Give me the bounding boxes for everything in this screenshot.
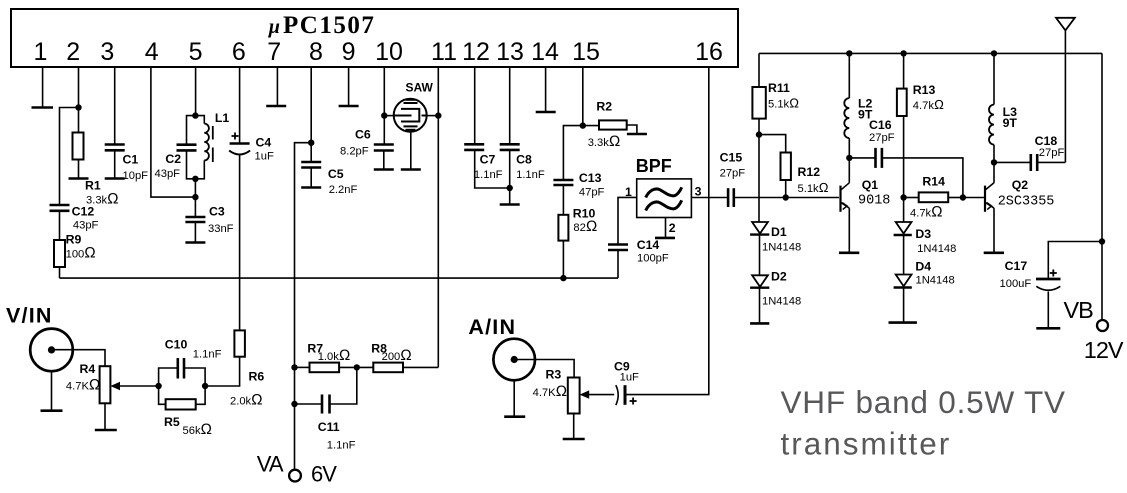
ground C5 — [301, 186, 321, 189]
diode D4 — [896, 275, 912, 287]
wire R5 branch right — [196, 386, 205, 404]
wire R12 to signal node — [785, 180, 787, 198]
svg-text:VA: VA — [257, 452, 284, 477]
wire R1 to ground — [78, 159, 80, 179]
capacitor C9 electrolytic — [616, 385, 618, 405]
svg-text:8: 8 — [309, 38, 323, 66]
potentiometer R3 — [568, 378, 580, 414]
ground Q2 emitter — [984, 252, 1004, 255]
svg-text:D1: D1 — [771, 225, 787, 239]
ground pin9 — [339, 105, 359, 108]
capacitor C4 plus sign — [232, 133, 239, 140]
svg-text:8.2pF: 8.2pF — [340, 146, 369, 158]
wire R9 to bus — [59, 267, 61, 278]
wire R2 to ground — [627, 125, 637, 134]
svg-text:C7: C7 — [480, 152, 496, 166]
capacitor C2 — [177, 143, 197, 146]
wire D3 to D4 — [903, 235, 905, 275]
svg-text:33nF: 33nF — [208, 223, 234, 235]
wire jack to R3 — [517, 360, 574, 378]
node tank bottom — [192, 176, 198, 182]
svg-text:10: 10 — [375, 38, 403, 66]
svg-text:C4: C4 — [256, 136, 272, 150]
ground pin14 — [536, 111, 556, 114]
ground D4 — [889, 321, 917, 324]
ground R1 — [69, 177, 89, 180]
wire VB line down — [1101, 53, 1103, 320]
svg-text:27pF: 27pF — [1039, 147, 1065, 159]
ground C1 — [105, 177, 125, 180]
resistor R8 — [373, 363, 403, 373]
wire pin5 stub — [195, 67, 197, 116]
svg-text:PC1507: PC1507 — [283, 12, 375, 39]
svg-text:R1: R1 — [85, 179, 101, 193]
svg-text:1uF: 1uF — [620, 372, 639, 384]
svg-text:100uF: 100uF — [1000, 278, 1032, 290]
svg-text:C11: C11 — [318, 420, 340, 434]
ground BPF pin2 — [655, 237, 675, 240]
ground R3 — [563, 438, 585, 441]
capacitor C17 electrolytic — [1036, 278, 1061, 281]
svg-text:2SC3355: 2SC3355 — [998, 195, 1055, 210]
wire junction to C3 — [194, 197, 196, 217]
wire C4 to R6 — [239, 155, 241, 331]
wire D1 chain — [758, 135, 760, 222]
ground C17 — [1036, 327, 1060, 330]
ground C6 — [374, 168, 394, 171]
svg-text:3: 3 — [100, 38, 114, 66]
node R12 signal junction — [783, 194, 789, 200]
capacitor C15 — [727, 188, 730, 207]
capacitor C18 — [1030, 154, 1033, 171]
svg-text:BPF: BPF — [636, 156, 672, 176]
ground Q1 emitter — [839, 252, 859, 255]
wire C6 to ground — [383, 151, 385, 170]
resistor R14 — [904, 197, 919, 199]
svg-text:6: 6 — [232, 38, 246, 66]
wire C1 to ground — [114, 150, 116, 178]
wire pin11 line to R8 — [403, 366, 438, 368]
svg-text:C6: C6 — [355, 128, 371, 142]
capacitor C11 — [321, 395, 324, 414]
svg-text:VHF band 0.5W TV: VHF band 0.5W TV — [781, 384, 1066, 420]
connector A/IN jack — [493, 339, 535, 381]
svg-text:2: 2 — [66, 38, 80, 66]
node R13 rail — [900, 50, 906, 56]
node pin4 C3 junction — [192, 194, 198, 200]
wire jack body to ground — [51, 371, 53, 411]
svg-text:VB: VB — [1064, 297, 1094, 323]
wire bottom bus — [60, 277, 619, 279]
inductor L3 — [993, 53, 995, 104]
node Q1 collector junction — [846, 155, 852, 161]
svg-text:C2: C2 — [165, 152, 181, 166]
SAW internal glyph — [394, 100, 427, 130]
svg-text:100pF: 100pF — [637, 253, 669, 265]
svg-text:C8: C8 — [516, 152, 532, 166]
ground pin7 — [266, 105, 286, 108]
svg-text:Q1: Q1 — [862, 178, 879, 192]
svg-text:L1: L1 — [215, 111, 230, 125]
svg-text:7: 7 — [267, 38, 281, 66]
capacitor C14 — [608, 249, 628, 252]
svg-text:1: 1 — [34, 38, 48, 66]
wire R6 bottom to wiper node — [205, 357, 240, 386]
wire pin9 stub — [348, 67, 350, 106]
svg-text:2.2nF: 2.2nF — [329, 184, 358, 196]
svg-text:R14: R14 — [922, 175, 945, 189]
svg-text:C10: C10 — [165, 338, 188, 352]
wire pin15 node to C13 — [563, 126, 582, 180]
resistor R13 — [903, 53, 905, 88]
capacitor C12 — [50, 204, 70, 207]
svg-text:µ: µ — [268, 16, 281, 38]
svg-text:R3: R3 — [546, 368, 562, 382]
svg-text:C13: C13 — [579, 171, 602, 185]
svg-text:1.1nF: 1.1nF — [327, 440, 356, 452]
capacitor C6 — [374, 143, 394, 146]
svg-text:5.1kΩ: 5.1kΩ — [768, 96, 799, 111]
wire C10 branch left — [159, 368, 178, 386]
wire R4 to ground — [104, 403, 106, 430]
svg-text:9018: 9018 — [858, 194, 890, 209]
svg-text:10pF: 10pF — [123, 170, 149, 182]
wire pin16 stub down to C9 — [625, 67, 709, 395]
resistor R12 — [781, 153, 791, 181]
terminal VA — [289, 470, 301, 482]
svg-text:4: 4 — [145, 38, 159, 66]
wire D4 to ground — [903, 288, 905, 323]
wire R7 bus left — [295, 366, 310, 368]
resistor R1 — [73, 133, 84, 160]
svg-text:R6: R6 — [249, 370, 265, 384]
wire tank left branch — [187, 116, 196, 145]
capacitor C16 — [874, 148, 877, 168]
L1 core bars — [212, 126, 214, 140]
node C10 R5 right junction — [202, 383, 208, 389]
svg-text:12: 12 — [462, 38, 490, 66]
svg-text:transmitter: transmitter — [781, 426, 952, 462]
wire R11 to node — [758, 119, 760, 135]
wire pin10 node to SAW — [384, 115, 393, 117]
diode D3 — [896, 222, 912, 234]
wire pin15 stub — [582, 67, 584, 126]
ground D2 — [750, 322, 769, 325]
inductor L1 — [204, 124, 209, 161]
svg-text:D2: D2 — [771, 270, 787, 284]
node wiper C10 junction — [155, 383, 161, 389]
node C7 C8 junction — [507, 185, 513, 191]
wire Q2 collector to C18 — [994, 161, 1031, 163]
wire top supply rail — [759, 52, 1102, 54]
svg-text:47pF: 47pF — [579, 186, 605, 198]
connector V/IN jack — [30, 329, 73, 372]
wire pin1 stub — [42, 67, 44, 108]
terminal VB — [1097, 320, 1108, 331]
svg-text:5.1kΩ: 5.1kΩ — [798, 180, 829, 195]
wire tank right branch — [195, 116, 204, 124]
svg-text:6V: 6V — [311, 462, 337, 487]
node L2 rail — [846, 50, 852, 56]
resistor R9 — [54, 240, 65, 267]
svg-text:R9: R9 — [66, 233, 82, 247]
potentiometer R4 — [100, 366, 111, 403]
svg-text:C17: C17 — [1005, 259, 1028, 273]
wire C5 to ground — [310, 168, 312, 188]
diode D2 — [752, 275, 768, 287]
svg-text:V/IN: V/IN — [6, 304, 53, 328]
svg-text:Q2: Q2 — [1012, 178, 1029, 192]
wire R10 to bus — [562, 241, 564, 279]
ground C3 — [185, 241, 205, 244]
wire pin4 stub — [151, 67, 195, 197]
svg-text:1.1nF: 1.1nF — [516, 169, 545, 181]
node R7 R8 junction — [354, 364, 360, 370]
wire C11 to R7 node — [330, 367, 357, 404]
svg-text:1.1nF: 1.1nF — [193, 349, 222, 361]
node R13 D3 R14 junction — [900, 194, 906, 200]
R4 wiper arrow — [113, 385, 159, 387]
svg-text:4.7kΩ: 4.7kΩ — [913, 97, 944, 112]
capacitor C8 — [500, 143, 520, 146]
IC U1 uPC1507 body — [11, 9, 738, 67]
svg-text:12V: 12V — [1084, 337, 1124, 363]
resistor R7 — [310, 363, 340, 373]
svg-text:C12: C12 — [72, 205, 95, 219]
wire pin8 stub — [310, 67, 312, 162]
capacitor C5 — [301, 161, 321, 164]
wire D3 chain — [903, 198, 905, 222]
svg-text:3: 3 — [695, 184, 702, 198]
svg-text:1N4148: 1N4148 — [916, 274, 955, 286]
node pin8 junction — [308, 140, 314, 146]
wire SAW bottom to ground — [410, 132, 412, 170]
node pin10 junction — [381, 112, 387, 118]
svg-text:C18: C18 — [1035, 134, 1058, 148]
ground V/IN jack — [41, 409, 63, 412]
capacitor C3 — [185, 216, 205, 219]
capacitor C13 — [553, 179, 573, 182]
svg-text:2: 2 — [669, 221, 676, 235]
capacitor C4 electrolytic — [230, 142, 250, 145]
BPF pin2 stem — [665, 218, 667, 238]
antenna — [1056, 18, 1075, 31]
svg-text:9: 9 — [342, 38, 356, 66]
resistor R11 — [758, 53, 760, 87]
svg-text:R11: R11 — [768, 81, 790, 95]
wire C17 top — [1048, 242, 1102, 279]
wire pin7 stub — [276, 67, 278, 106]
wire C8 to ground — [509, 150, 511, 205]
node VA R7 junction — [291, 364, 297, 370]
wire C7 to C8 junction — [475, 150, 510, 188]
svg-text:1uF: 1uF — [255, 151, 274, 163]
svg-text:43pF: 43pF — [155, 168, 181, 180]
svg-text:D3: D3 — [915, 227, 931, 241]
wire C15 to R12 node — [734, 197, 786, 199]
svg-text:15: 15 — [572, 38, 600, 66]
wire C11 branch left — [295, 403, 322, 405]
svg-text:C15: C15 — [720, 151, 743, 165]
wire tank bottom to pin4 node — [194, 179, 196, 197]
inductor L2 — [848, 53, 850, 98]
wire pin10 stub — [383, 67, 385, 145]
ground SAW — [401, 168, 421, 171]
svg-text:16: 16 — [695, 38, 723, 66]
svg-text:14: 14 — [531, 38, 559, 66]
svg-text:R13: R13 — [913, 83, 936, 97]
svg-text:1: 1 — [625, 185, 632, 199]
wire pin6 stub — [239, 67, 241, 144]
resistor R5 — [166, 399, 196, 409]
node Q2 collector junction — [991, 159, 997, 165]
wire BPF pin3 to C15 — [691, 197, 728, 199]
node pin15 junction — [580, 122, 586, 128]
transistor Q1 — [839, 186, 841, 212]
svg-text:1N4148: 1N4148 — [762, 296, 801, 308]
wire pin14 stub — [545, 67, 547, 112]
svg-text:R5: R5 — [164, 415, 180, 429]
svg-text:1N4148: 1N4148 — [917, 243, 956, 255]
capacitor C7 — [464, 143, 484, 146]
wire pin15 to R2 — [583, 125, 599, 127]
svg-text:R12: R12 — [798, 165, 821, 179]
node C16 R14 junction — [960, 194, 966, 200]
node R11 R12 D1 — [756, 131, 762, 137]
wire Q2 base — [963, 197, 984, 199]
wire R5 branch left — [159, 386, 166, 404]
wire jack to R4 — [55, 350, 105, 367]
svg-text:27pF: 27pF — [720, 168, 746, 180]
wire signal node to Q1 base — [786, 197, 839, 199]
svg-text:R4: R4 — [80, 362, 96, 376]
svg-text:C1: C1 — [123, 153, 139, 167]
wire R3 to ground — [573, 414, 575, 440]
svg-text:C14: C14 — [637, 238, 660, 252]
svg-text:11: 11 — [431, 38, 457, 66]
capacitor C10 — [177, 358, 180, 379]
wire D2 to ground — [759, 288, 761, 324]
svg-text:43pF: 43pF — [73, 220, 99, 232]
wire C13 to R10 — [562, 185, 564, 215]
SAW resonator X1 circle — [394, 99, 427, 132]
wire pin8 to VA line — [295, 143, 312, 470]
svg-text:27pF: 27pF — [869, 132, 895, 144]
wire L1 to tank bottom — [195, 160, 204, 178]
resistor R2 — [599, 120, 627, 129]
ground R2 — [627, 133, 647, 136]
wire C17 to ground — [1047, 292, 1049, 329]
wire SAW to pin11 node — [427, 115, 439, 117]
wire C14 to BPF pin1 — [618, 197, 637, 244]
wire C3 to ground — [194, 222, 196, 243]
svg-text:C16: C16 — [869, 118, 892, 132]
wire C18 to antenna — [1037, 161, 1065, 163]
ground pin1 — [32, 106, 54, 109]
wire D1 to D2 — [759, 235, 761, 276]
svg-text:D4: D4 — [915, 260, 931, 274]
wire R7 to R8 — [339, 366, 373, 368]
wire pin11 stub — [437, 67, 439, 367]
node L3 rail — [991, 50, 997, 56]
R3 wiper arrow — [582, 394, 614, 396]
wire C12 to R9 — [59, 211, 61, 240]
transistor Q2 — [984, 186, 986, 212]
wire Q1 collector to C16 — [849, 157, 875, 159]
resistor R10 — [558, 215, 568, 241]
svg-text:1N4148: 1N4148 — [762, 242, 801, 254]
svg-text:5: 5 — [189, 38, 203, 66]
node VA C11 junction — [291, 401, 297, 407]
svg-text:A/IN: A/IN — [468, 315, 516, 339]
wire A jack body to ground — [513, 380, 515, 416]
svg-text:R2: R2 — [596, 100, 612, 114]
ground R4 — [95, 429, 117, 432]
node pin11 SAW junction — [435, 112, 441, 118]
diode D1 — [752, 222, 768, 234]
svg-text:C5: C5 — [328, 167, 344, 181]
wire C2 to tank bottom — [187, 150, 196, 178]
capacitor C1 — [105, 143, 125, 146]
svg-text:C3: C3 — [209, 205, 225, 219]
svg-text:9T: 9T — [1003, 116, 1018, 130]
resistor R6 — [234, 330, 245, 356]
wire pin2 junction to C12 branch — [60, 108, 79, 206]
wire node to R12 — [759, 135, 786, 153]
svg-text:1.1nF: 1.1nF — [474, 169, 503, 181]
node C17 VB junction — [1099, 238, 1105, 244]
wire pin13 stub — [509, 67, 511, 144]
svg-text:SAW: SAW — [406, 81, 434, 95]
node R10 bus junction — [560, 275, 566, 281]
svg-text:13: 13 — [496, 38, 524, 66]
wire C10 branch right — [184, 368, 205, 386]
wire pin2 stub — [78, 67, 80, 132]
BPF wave symbols — [646, 187, 682, 197]
C9 plus sign — [630, 398, 637, 405]
wire pin12 stub — [474, 67, 476, 144]
filter BPF box — [637, 179, 692, 218]
ground C8 — [500, 203, 520, 206]
node tank top — [192, 112, 198, 118]
node pin2 junction — [75, 104, 81, 110]
wire C16 to Q2 base node — [882, 158, 963, 198]
C17 plus sign — [1050, 270, 1057, 277]
wire bus riser to C14 — [617, 250, 619, 278]
ground A/IN jack — [504, 415, 525, 418]
wire pin3 stub — [114, 67, 116, 145]
